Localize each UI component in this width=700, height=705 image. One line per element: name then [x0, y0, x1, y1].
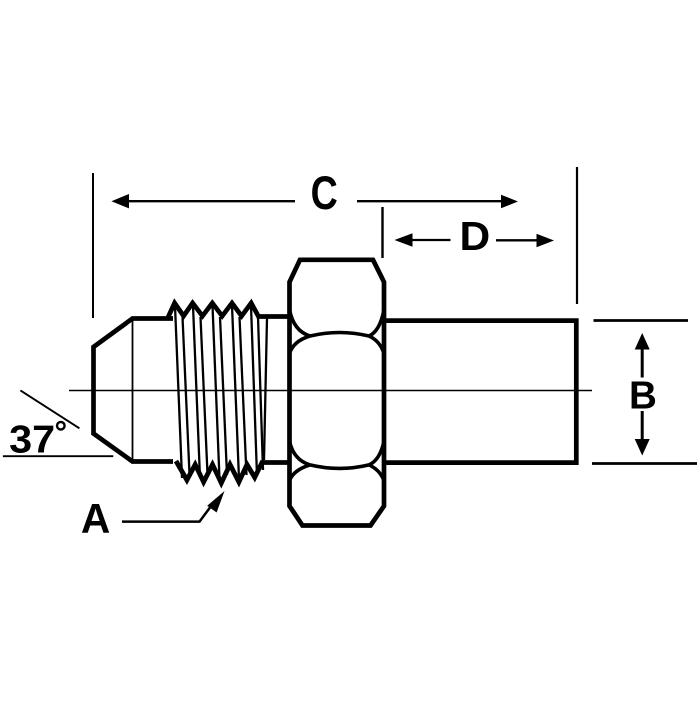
- dim B top extension line: [594, 319, 689, 322]
- hex nut outline: [290, 260, 385, 526]
- thread runout line: [264, 318, 267, 460]
- thread bottom zigzag and shank bottom: [176, 461, 291, 483]
- dim C left extension line: [92, 173, 94, 318]
- 37 degree baseline: [3, 455, 113, 457]
- thread flank lines: [175, 306, 263, 480]
- dim D arrow left: [411, 239, 451, 241]
- tube body: [384, 321, 576, 463]
- dim B arrow down: [641, 411, 644, 440]
- 37 degree angle line: [20, 390, 79, 428]
- degree symbol: [57, 422, 65, 430]
- dim D extension line: [381, 207, 383, 258]
- svg-text:A: A: [81, 495, 110, 542]
- svg-text:37: 37: [9, 418, 55, 462]
- cone-cylinder tangent line: [132, 319, 134, 461]
- svg-text:D: D: [460, 213, 491, 259]
- dim D arrow right: [496, 239, 537, 241]
- dim C arrow left: [128, 200, 295, 202]
- dim C right extension line: [576, 167, 578, 304]
- label A leader line: [122, 504, 213, 522]
- dim C arrow right: [357, 200, 502, 202]
- svg-text:C: C: [311, 167, 338, 220]
- flare cone nose outline: [94, 319, 174, 462]
- hex facet arcs bottom: [290, 441, 385, 481]
- thread top zigzag and shank top: [168, 303, 292, 319]
- svg-text:B: B: [629, 374, 657, 417]
- hex facet arcs top: [290, 310, 385, 354]
- dim B bottom extension line: [592, 462, 697, 465]
- centerline: [69, 390, 592, 392]
- dim B arrow up: [641, 348, 644, 378]
